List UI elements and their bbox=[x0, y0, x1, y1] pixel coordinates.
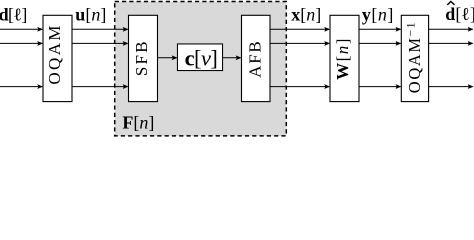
wire x3 AFB to W bbox=[270, 84, 330, 89]
wire y1 W to OQAM-1 bbox=[359, 27, 401, 32]
wire d3 into OQAM bbox=[0, 84, 43, 89]
svg-text:AFB: AFB bbox=[246, 40, 265, 78]
wire out1 from OQAM-1 bbox=[429, 27, 474, 32]
svg-text:x[n]: x[n] bbox=[291, 4, 321, 24]
wire u1 OQAM to SFB bbox=[72, 27, 129, 32]
wire x2 AFB to W bbox=[270, 41, 330, 46]
block c[nu] bbox=[177, 44, 222, 71]
wire c[nu] to AFB bbox=[223, 55, 242, 60]
wire y2 W to OQAM-1 bbox=[359, 41, 401, 46]
svg-text:y[n]: y[n] bbox=[362, 4, 394, 24]
wire out2 from OQAM-1 bbox=[429, 41, 474, 46]
wire out3 from OQAM-1 bbox=[429, 84, 474, 89]
wire u2 OQAM to SFB bbox=[72, 41, 129, 46]
svg-text:d[ℓ]: d[ℓ] bbox=[445, 4, 474, 24]
block AFB bbox=[242, 15, 271, 101]
wire u3 OQAM to SFB bbox=[72, 84, 129, 89]
block SFB bbox=[129, 15, 158, 101]
wire y3 W to OQAM-1 bbox=[359, 84, 401, 89]
svg-text:c[ν]: c[ν] bbox=[185, 45, 218, 70]
block W[n] bbox=[330, 15, 359, 101]
hat accent on d bbox=[447, 2, 454, 5]
svg-text:SFB: SFB bbox=[132, 39, 151, 76]
svg-text:OQAM: OQAM bbox=[45, 23, 64, 85]
block OQAM bbox=[43, 15, 72, 101]
svg-text:W[n]: W[n] bbox=[333, 37, 352, 80]
dashed gray box F[n] bbox=[115, 2, 287, 136]
wire d2 into OQAM bbox=[0, 41, 43, 46]
block OQAM-1 bbox=[401, 15, 428, 101]
wire SFB to c[nu] bbox=[158, 55, 178, 60]
wire d1 into OQAM bbox=[0, 27, 43, 32]
svg-text:u[n]: u[n] bbox=[75, 4, 106, 24]
svg-text:d[ℓ]: d[ℓ] bbox=[0, 4, 27, 24]
wire x1 AFB to W bbox=[270, 27, 330, 32]
svg-text:F[n]: F[n] bbox=[122, 112, 154, 132]
